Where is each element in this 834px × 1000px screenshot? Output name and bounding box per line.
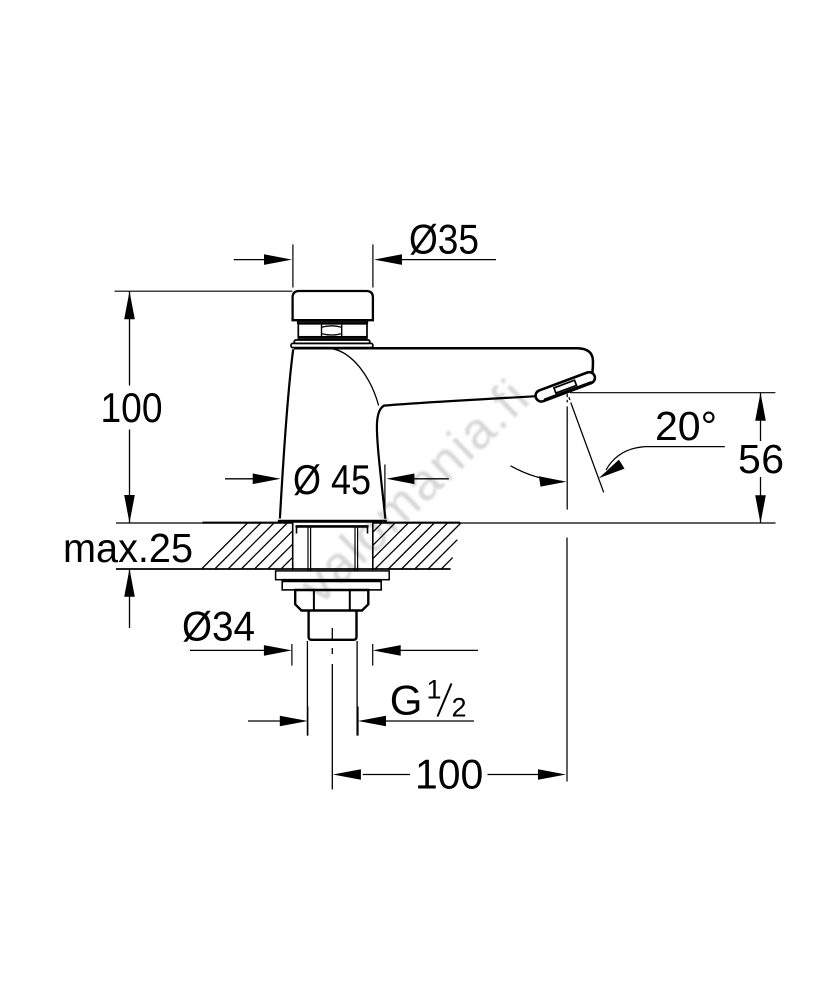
dimension Ø35 extension line left: [292, 244, 294, 287]
dimension Ø35 line left with arrow: [234, 254, 292, 265]
svg-text:1: 1: [427, 675, 442, 705]
svg-text:20°: 20°: [655, 403, 717, 449]
spout top outline and end face: [294, 348, 593, 379]
washer plate narrow: [282, 580, 381, 590]
svg-text:2: 2: [452, 693, 467, 723]
dimension Ø34 extension ticks: [292, 644, 373, 666]
label G 1/2: [390, 675, 467, 724]
svg-text:Ø 45: Ø 45: [293, 456, 371, 503]
counter hole edge right: [372, 523, 374, 570]
svg-text:max.25: max.25: [63, 525, 193, 571]
20 degree arc arrow: [511, 466, 567, 487]
threaded pipe: [307, 641, 357, 736]
20 degree leader with arrow: [599, 447, 725, 479]
svg-text:56: 56: [738, 436, 784, 482]
dimension G1/2 line right with arrow: [358, 716, 474, 727]
20 degree slanted line: [569, 397, 604, 492]
dimension Ø35 line right with arrow: [374, 254, 496, 265]
shank block: [309, 611, 357, 640]
dimension Ø45 left arrow: [225, 474, 281, 485]
counter hole edge left: [292, 523, 294, 570]
aerator centerline: [566, 394, 568, 782]
aerator inner edge line: [544, 382, 592, 400]
faucet neck ring: [298, 321, 368, 324]
dimension Ø34 line left with arrow: [190, 645, 292, 656]
body crease line: [333, 349, 379, 406]
body left edge: [280, 349, 293, 518]
aerator outlet: [554, 380, 577, 393]
dimension 100 bottom line with arrows: [333, 769, 566, 780]
bonnet skirt ring: [294, 340, 370, 343]
dimension Ø35 extension line right: [372, 244, 374, 287]
hatching left block: [202, 523, 293, 569]
shank tube walls through counter: [308, 528, 358, 571]
dimension Ø34 line right with arrow: [373, 645, 478, 656]
svg-text:100: 100: [415, 751, 483, 798]
dimension 56 vertical line with arrows: [755, 393, 766, 524]
bonnet hex nut: [298, 324, 367, 337]
hatching right block: [373, 523, 461, 570]
dimension 100 top extension line: [115, 290, 293, 292]
body right edge and spout underside: [377, 396, 537, 519]
watermark valomania.fi: [288, 367, 541, 614]
dimension 100 vertical line with arrows: [124, 291, 135, 523]
body base bottom edge: [278, 520, 387, 523]
aerator housing: [536, 372, 595, 401]
svg-text:100: 100: [101, 384, 163, 431]
svg-text:Ø34: Ø34: [182, 603, 255, 650]
bonnet lower ring: [298, 337, 367, 340]
countertop top line: [116, 522, 776, 524]
svg-text:Ø35: Ø35: [409, 216, 479, 263]
dimension 56 top reference line: [570, 392, 775, 394]
dimension G1/2 line left with arrow: [248, 716, 308, 727]
mounting top plate in hole: [296, 526, 369, 533]
bonnet base lip: [291, 343, 373, 347]
dimension Ø45 right arrow: [385, 465, 449, 510]
mounting hex nut: [295, 590, 368, 611]
washer plate wide: [276, 571, 390, 580]
svg-text:G: G: [390, 676, 423, 723]
countertop bottom line: [116, 568, 451, 570]
shank centerline: [331, 628, 333, 790]
dimension G1/2 extension ticks: [308, 707, 358, 736]
faucet head cap: [293, 291, 373, 320]
dimension max.25 lower leg with arrow: [124, 569, 135, 628]
